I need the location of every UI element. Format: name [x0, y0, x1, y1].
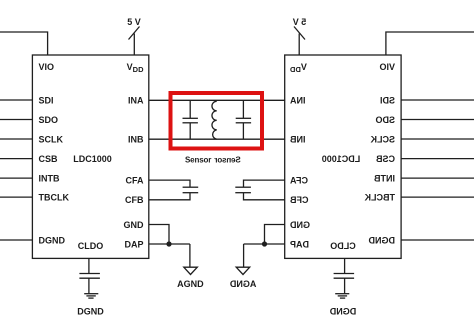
wire SCLK right	[401, 138, 474, 140]
svg-text:TBCLK: TBCLK	[364, 192, 395, 202]
svg-text:GND: GND	[290, 220, 311, 230]
svg-text:DGND: DGND	[77, 307, 104, 317]
svg-text:Sensor: Sensor	[185, 155, 211, 164]
wire INTB right	[401, 177, 474, 179]
svg-text:DAP: DAP	[290, 239, 309, 249]
svg-text:DGND: DGND	[329, 307, 356, 317]
wire SDO right	[401, 119, 474, 121]
highlight red box around sensor	[171, 93, 263, 149]
capacitor sensor right	[236, 100, 251, 139]
capacitor CFA-CFB left	[183, 187, 199, 193]
wire CFB right to capacitor	[244, 193, 285, 200]
wire INB (left chip to right chip)	[149, 138, 285, 140]
svg-text:SDO: SDO	[39, 115, 59, 125]
svg-text:5 V: 5 V	[127, 17, 141, 27]
node junction DAP/GND	[166, 241, 171, 246]
ground DGND right (symbol)	[335, 294, 349, 298]
wire CLDO right	[344, 258, 346, 273]
wire VIO top-left to edge	[0, 32, 48, 55]
svg-text:GND: GND	[124, 220, 145, 230]
svg-text:SDI: SDI	[380, 95, 395, 105]
svg-text:VDD: VDD	[127, 62, 144, 74]
wire CLDO	[88, 258, 90, 273]
power 5V supply stub right	[294, 27, 305, 56]
wire DGND	[0, 239, 32, 241]
ground AGND right (arrow)	[236, 267, 250, 274]
capacitor CLDO right	[334, 274, 355, 279]
wire SCLK	[0, 138, 32, 140]
inductor sensor coil	[212, 101, 217, 139]
svg-text:INA: INA	[128, 96, 144, 106]
ground DGND left (symbol)	[84, 294, 98, 298]
wire INA (left chip to right chip)	[149, 99, 285, 101]
svg-text:CFA: CFA	[289, 175, 308, 185]
svg-text:VIO: VIO	[39, 62, 55, 72]
wire INTB	[0, 177, 32, 179]
wire DAP right	[244, 243, 285, 245]
capacitor CLDO left	[79, 274, 100, 279]
svg-text:INTB: INTB	[39, 173, 60, 183]
wire TBCLK right	[401, 196, 474, 198]
svg-text:5 V: 5 V	[293, 17, 307, 27]
svg-text:DGND: DGND	[39, 235, 66, 245]
power 5V supply stub left	[129, 27, 140, 56]
svg-text:SDI: SDI	[39, 95, 54, 105]
svg-text:Sensor: Sensor	[214, 155, 240, 164]
node junction DAP/GND right	[262, 241, 267, 246]
wire CSB right	[401, 158, 474, 160]
wire DAP	[149, 243, 190, 245]
svg-text:CSB: CSB	[39, 154, 59, 164]
svg-text:CSB: CSB	[375, 154, 395, 164]
svg-text:CFB: CFB	[125, 195, 144, 205]
IC U2 LDC1000 chip body (right, mirrored)	[285, 55, 401, 258]
capacitor sensor left	[183, 100, 198, 139]
svg-text:AGND: AGND	[229, 279, 256, 289]
wire SDI	[0, 99, 32, 101]
wire CFB to capacitor	[149, 193, 190, 200]
wire CSB	[0, 158, 32, 160]
wire DGND right	[401, 239, 474, 241]
svg-text:CLDO: CLDO	[330, 241, 356, 251]
IC U1 LDC1000 chip body (left)	[32, 55, 148, 258]
svg-text:INB: INB	[290, 135, 306, 145]
svg-text:DGND: DGND	[368, 235, 395, 245]
svg-text:AGND: AGND	[177, 279, 204, 289]
wire VIO top-right to edge	[386, 32, 474, 55]
capacitor CFA-CFB right	[235, 187, 251, 193]
wire DAP to AGND right	[243, 244, 245, 267]
svg-text:INB: INB	[128, 135, 144, 145]
wire CLDO capacitor to ground	[88, 278, 90, 293]
svg-text:DAP: DAP	[124, 239, 143, 249]
wire CFA to capacitor	[149, 180, 190, 187]
svg-text:LDC1000: LDC1000	[322, 154, 361, 164]
svg-text:CFA: CFA	[126, 175, 145, 185]
svg-text:SDO: SDO	[375, 115, 395, 125]
wire TBCLK	[0, 196, 32, 198]
svg-text:INTB: INTB	[374, 173, 395, 183]
svg-text:CFB: CFB	[290, 195, 309, 205]
svg-text:CLDO: CLDO	[78, 241, 104, 251]
ground AGND left (arrow)	[184, 267, 198, 274]
wire DAP to AGND	[189, 244, 191, 267]
svg-text:SCLK: SCLK	[39, 134, 64, 144]
wire SDO	[0, 119, 32, 121]
svg-text:TBCLK: TBCLK	[39, 192, 70, 202]
svg-text:LDC1000: LDC1000	[73, 154, 112, 164]
wire CFA right to capacitor	[244, 180, 285, 187]
wire CLDO capacitor to ground right	[344, 278, 346, 293]
wire GND to DAP	[149, 225, 169, 245]
svg-text:INA: INA	[290, 96, 306, 106]
svg-text:VDD: VDD	[289, 62, 306, 74]
svg-text:VIO: VIO	[379, 62, 395, 72]
svg-text:SCLK: SCLK	[370, 134, 395, 144]
wire SDI right	[401, 99, 474, 101]
wire GND to DAP right	[265, 225, 285, 245]
